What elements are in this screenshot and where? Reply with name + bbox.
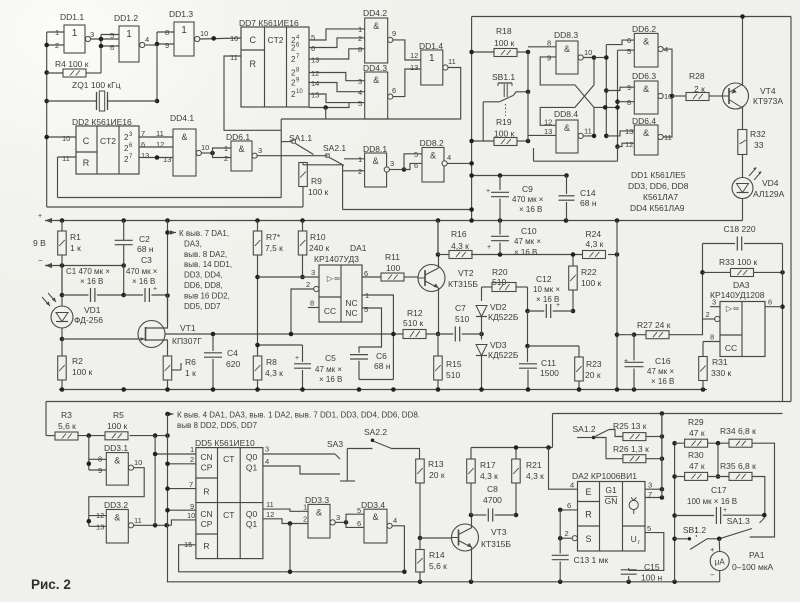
wire DA2 pin2	[560, 537, 572, 539]
svg-text:+: +	[38, 213, 42, 220]
svg-text:R29: R29	[688, 417, 704, 427]
svg-text:1: 1	[181, 25, 187, 36]
lamp symbol in DA2	[629, 500, 638, 509]
svg-text:−: −	[710, 571, 715, 580]
svg-text:9 В: 9 В	[33, 238, 46, 248]
wire section top to DA2 pin4	[552, 414, 554, 448]
svg-text:&: &	[564, 44, 570, 54]
svg-text:DA1: DA1	[350, 243, 367, 253]
wire DD1.1 inputs	[47, 31, 64, 33]
wire DD2 reset	[58, 156, 77, 158]
svg-text:15: 15	[311, 91, 319, 100]
svg-text:R10: R10	[310, 232, 326, 242]
svg-text:× 16 В: × 16 В	[519, 205, 542, 214]
svg-text:20 к: 20 к	[585, 370, 601, 380]
svg-text:10: 10	[62, 134, 70, 143]
svg-text:5: 5	[311, 33, 315, 42]
svg-text:DA3: DA3	[733, 280, 750, 290]
svg-text:11: 11	[134, 516, 142, 525]
svg-text:&: &	[114, 513, 120, 523]
svg-text:2: 2	[303, 515, 307, 524]
resistor R13 20k	[416, 459, 425, 483]
svg-text:SA1.1: SA1.1	[289, 133, 312, 143]
transistor VT2 KT315B	[418, 265, 445, 292]
svg-text:+: +	[556, 302, 560, 309]
svg-text:U: U	[631, 534, 637, 544]
svg-text:R16: R16	[451, 229, 467, 239]
svg-text:11: 11	[230, 53, 238, 62]
wire DD8.1 out to DD8.2 inputs	[389, 169, 404, 171]
svg-text:CC: CC	[324, 306, 336, 316]
wire DD6.3 input 9	[606, 87, 634, 90]
svg-text:R17: R17	[480, 460, 496, 470]
wire DA3 out pin6	[765, 306, 783, 308]
svg-text:VT2: VT2	[458, 268, 474, 278]
svg-text:R3: R3	[61, 410, 72, 420]
resistor R10 240k	[302, 221, 304, 232]
wire DD7 reset node	[309, 103, 349, 108]
svg-text:DD6.2: DD6.2	[632, 24, 656, 34]
wire DA3 pin3 stub	[710, 306, 720, 308]
svg-text:100 к: 100 к	[72, 367, 93, 377]
resistor R32 33	[738, 130, 747, 155]
svg-text:DD3.4: DD3.4	[361, 500, 385, 510]
svg-text:6: 6	[768, 298, 772, 307]
meter PA1	[710, 552, 729, 571]
svg-text:К561ЛА7: К561ЛА7	[643, 192, 678, 202]
wire DD4.2 out to DD1.4	[393, 40, 421, 60]
svg-text:10: 10	[187, 511, 195, 520]
svg-text:5: 5	[647, 524, 651, 533]
svg-text:Рис. 2: Рис. 2	[31, 577, 71, 592]
svg-text:12: 12	[311, 69, 319, 78]
svg-text:SA2.2: SA2.2	[364, 427, 387, 437]
transistor VT1 KP307G (FET)	[138, 321, 165, 348]
capacitor C5 47uF	[302, 345, 304, 362]
wire DD1.3 output to DD7	[200, 38, 241, 39]
svg-text:C8: C8	[487, 484, 498, 494]
svg-text:1500: 1500	[540, 368, 559, 378]
svg-text:C9: C9	[522, 184, 533, 194]
svg-text:&: &	[316, 507, 322, 517]
svg-text:3: 3	[648, 481, 652, 490]
svg-text:68 н: 68 н	[137, 244, 154, 254]
wire latch to DD6 column A	[594, 57, 606, 59]
svg-text:2: 2	[565, 529, 569, 538]
svg-text:&: &	[373, 156, 379, 166]
svg-text:+: +	[486, 188, 490, 195]
svg-text:5,6 к: 5,6 к	[58, 421, 76, 431]
svg-text:10: 10	[584, 48, 592, 57]
svg-text:3: 3	[358, 77, 362, 86]
capacitor C16 47uF	[633, 335, 635, 361]
svg-text:470 мк ×: 470 мк ×	[126, 267, 158, 276]
wire DD5 pin10 from DD3.2	[171, 520, 196, 525]
wire DD2 clock	[47, 136, 76, 138]
transistor VT4 KT973A	[723, 83, 749, 109]
svg-text:4: 4	[570, 481, 574, 490]
svg-text:μА: μА	[715, 558, 726, 567]
svg-text:CN: CN	[200, 452, 212, 462]
svg-text:∞: ∞	[733, 304, 739, 313]
svg-text:510: 510	[455, 314, 469, 324]
svg-text:1: 1	[126, 29, 132, 40]
wire latch to DD6 column B	[594, 106, 618, 108]
svg-text:R8: R8	[266, 357, 277, 367]
svg-text:11: 11	[584, 127, 592, 136]
wire VD1 node down	[61, 339, 63, 356]
svg-text:CT2: CT2	[267, 35, 283, 45]
capacitor C6 68n	[350, 354, 368, 356]
svg-text:68 н: 68 н	[374, 361, 391, 371]
resistor R31 330k	[703, 341, 720, 343]
node osc-left junction	[44, 43, 49, 48]
svg-text:13: 13	[625, 127, 633, 136]
wire VT3 collector	[471, 515, 473, 528]
svg-text:13: 13	[163, 155, 171, 164]
svg-text:13: 13	[311, 56, 319, 65]
svg-text:C14: C14	[580, 188, 596, 198]
svg-text:R6: R6	[185, 357, 196, 367]
wire VT1 drain right long	[165, 333, 403, 335]
svg-text:3: 3	[712, 298, 716, 307]
svg-text:7: 7	[189, 480, 193, 489]
svg-text:R24: R24	[586, 229, 602, 239]
svg-text:R19: R19	[496, 117, 512, 127]
wire DD6.2 input 5	[618, 49, 635, 51]
svg-text:8: 8	[627, 98, 631, 107]
svg-text:&: &	[430, 151, 436, 161]
wire R9 bottom loop	[302, 187, 304, 208]
svg-text:C11: C11	[541, 358, 556, 368]
svg-text:PA1: PA1	[749, 550, 765, 560]
svg-text:C18 220: C18 220	[724, 224, 756, 234]
svg-text:DD1.3: DD1.3	[169, 9, 193, 19]
svg-text:CN: CN	[200, 509, 212, 519]
svg-text:1 к: 1 к	[185, 368, 196, 378]
svg-text:&: &	[643, 128, 649, 138]
svg-text:DD3, DD4,: DD3, DD4,	[184, 271, 223, 280]
wire PA1 bottom	[719, 571, 721, 582]
svg-text:КД522Б: КД522Б	[488, 350, 519, 360]
svg-text:10: 10	[200, 29, 208, 38]
svg-text:&: &	[238, 144, 244, 154]
svg-text:АЛ129А: АЛ129А	[753, 189, 785, 199]
svg-text:4,3 к: 4,3 к	[526, 471, 544, 481]
svg-text:CC: CC	[725, 343, 737, 353]
svg-text:∞: ∞	[334, 274, 340, 283]
capacitor C12 10uF	[527, 287, 529, 311]
wire x560 column	[559, 510, 561, 554]
wire latch cross B	[540, 57, 594, 136]
wire lower latch return y161	[534, 160, 618, 162]
svg-text:&: &	[643, 84, 649, 94]
svg-text:100 к: 100 к	[107, 421, 128, 431]
wire DD1.1 output	[91, 38, 119, 40]
svg-text:5,6 к: 5,6 к	[429, 561, 447, 571]
svg-text:C2: C2	[139, 234, 150, 244]
wire VD1 to VT1 gate	[61, 328, 63, 339]
resistor R7 7.5k	[257, 221, 259, 232]
svg-text:6: 6	[110, 43, 114, 52]
wire DD5 out 11 to DD3.3	[263, 509, 308, 511]
svg-text:выв 16 DD2,: выв 16 DD2,	[184, 291, 230, 300]
svg-text:2: 2	[190, 455, 194, 464]
resistor R23 20k	[578, 346, 580, 357]
svg-text:6: 6	[392, 86, 396, 95]
wire К выв.7 arrow	[169, 232, 177, 234]
svg-text:C5: C5	[325, 353, 336, 363]
svg-text:33: 33	[754, 140, 764, 150]
wire VT4 emitter	[742, 106, 744, 130]
svg-text:К выв. 4 DA1, DA3, выв. 1 DA2,: К выв. 4 DA1, DA3, выв. 1 DA2, выв. 7 DD…	[177, 411, 420, 420]
svg-text:47 мк ×: 47 мк ×	[647, 367, 674, 376]
svg-text:11: 11	[266, 500, 274, 509]
wire DA3 pin2 from R27	[703, 318, 715, 320]
wire DD4.1 out to DD6.1	[201, 152, 212, 154]
svg-text:R13: R13	[428, 459, 444, 469]
svg-text:R: R	[203, 541, 209, 551]
svg-text:DD1.1: DD1.1	[60, 12, 84, 22]
svg-text:VT4: VT4	[760, 86, 776, 96]
svg-text:240 к: 240 к	[309, 243, 330, 253]
svg-text:3: 3	[336, 513, 340, 522]
svg-text:2: 2	[358, 34, 362, 43]
svg-text:3: 3	[265, 445, 269, 454]
svg-text:CT2: CT2	[100, 136, 116, 146]
svg-text:510 к: 510 к	[403, 318, 424, 328]
svg-text:DD3.1: DD3.1	[104, 443, 128, 453]
svg-text:11: 11	[448, 57, 456, 66]
diode VD2 KD522B	[476, 306, 487, 317]
wire x290 down	[289, 524, 291, 572]
svg-text:DD8.2: DD8.2	[420, 138, 444, 148]
wire SA2.1 to R9 node	[303, 164, 343, 166]
svg-text:× 16 В: × 16 В	[319, 375, 342, 384]
svg-text:1: 1	[429, 53, 435, 64]
wire DD1.2 output	[145, 44, 157, 46]
wire VT2 collector	[438, 255, 440, 269]
resistor R9	[299, 163, 308, 187]
wire R34/R35 mid column	[717, 443, 719, 476]
wire left vertical of top-right block	[471, 17, 473, 221]
svg-text:КР1407УД3: КР1407УД3	[314, 254, 359, 264]
wire right border	[790, 17, 792, 402]
svg-text:2: 2	[358, 167, 362, 176]
svg-text:13: 13	[544, 127, 552, 136]
resistor R17 4.3k	[470, 448, 472, 460]
svg-text:6: 6	[141, 140, 145, 149]
svg-text:5: 5	[627, 47, 631, 56]
svg-text:C10: C10	[521, 226, 537, 236]
svg-text:DD3.2: DD3.2	[104, 500, 128, 510]
svg-text:4: 4	[393, 516, 397, 525]
svg-text:14: 14	[311, 79, 319, 88]
svg-text:13: 13	[410, 63, 418, 72]
wire loop DD2 reset net	[58, 197, 282, 199]
svg-text:+: +	[624, 358, 628, 365]
wire VT1 drain up	[146, 296, 168, 329]
svg-text:5: 5	[110, 31, 114, 40]
wire DA2 section top line	[553, 413, 783, 415]
capacitor C10 47uF	[499, 221, 501, 235]
wire loop y207-210 right	[343, 209, 472, 211]
svg-text:E: E	[585, 487, 591, 497]
wire DD4.3 out to DD1.4	[393, 69, 421, 97]
wire C-line to VT1 drain node	[165, 293, 170, 298]
resistor R21 4.3k	[515, 448, 517, 460]
resistor R6 1k	[163, 356, 172, 380]
svg-text:100 к: 100 к	[581, 278, 602, 288]
svg-text:4: 4	[447, 153, 451, 162]
svg-text:7,5 к: 7,5 к	[265, 243, 283, 253]
svg-text:R14: R14	[429, 550, 445, 560]
wire R27 left row	[617, 334, 634, 336]
svg-text:DD3.3: DD3.3	[305, 495, 329, 505]
resistor R8 4.3k	[253, 356, 261, 380]
wire DD6.4 input 13	[606, 131, 634, 136]
svg-text:3: 3	[311, 268, 315, 277]
wire DA3 feedback left column	[702, 244, 704, 320]
wire DA1 out pin6 to R11	[362, 276, 381, 278]
svg-text:+: +	[295, 355, 299, 362]
svg-text:NC: NC	[345, 308, 357, 318]
svg-text:3: 3	[258, 146, 262, 155]
svg-text:4: 4	[358, 88, 362, 97]
wire x167 column upper	[167, 221, 169, 296]
svg-text:DD8.3: DD8.3	[554, 30, 578, 40]
svg-text:R5: R5	[113, 410, 124, 420]
wire C12 node down	[527, 311, 529, 346]
wire DD3.1 out loop to DD3.2	[89, 468, 144, 527]
svg-text:VT3: VT3	[491, 527, 507, 537]
capacitor C4 620	[212, 334, 214, 351]
svg-text:DA2 КР1006ВИ1: DA2 КР1006ВИ1	[572, 471, 637, 481]
svg-text:Q0: Q0	[246, 452, 258, 462]
svg-text:6: 6	[414, 161, 418, 170]
svg-text:Q1: Q1	[246, 463, 258, 473]
capacitor C13 1uF	[552, 554, 569, 556]
wire DA1 pin2 from VT1 line	[291, 289, 314, 334]
svg-text:100 мк × 16 В: 100 мк × 16 В	[687, 497, 737, 506]
svg-text:2: 2	[306, 280, 310, 289]
capacitor C14 68n	[566, 176, 568, 195]
wire R20 left column	[481, 287, 483, 301]
svg-text:КП307Г: КП307Г	[172, 336, 202, 346]
svg-text:DA3,: DA3,	[184, 239, 202, 248]
svg-text:С13 1 мк: С13 1 мк	[574, 555, 609, 565]
capacitor C15 100n	[628, 568, 630, 570]
svg-text:R15: R15	[446, 359, 462, 369]
svg-text:C3: C3	[141, 255, 152, 265]
svg-text:13: 13	[96, 523, 104, 532]
svg-text:DD4.1: DD4.1	[170, 113, 194, 123]
wire top supply	[472, 16, 791, 18]
svg-text:▷: ▷	[327, 274, 334, 283]
resistor R2 100k	[58, 356, 66, 380]
svg-text:C16: C16	[655, 356, 671, 366]
svg-text:8: 8	[710, 333, 714, 342]
svg-text:9: 9	[547, 54, 551, 63]
svg-text:9: 9	[392, 29, 396, 38]
wire R21 bottom to DA2? none - C8 node	[515, 514, 517, 516]
capacitor C9 470uF	[499, 176, 501, 191]
wire left frame drop	[45, 402, 47, 436]
wire -9V rail	[45, 265, 124, 267]
svg-text:9: 9	[98, 466, 102, 475]
svg-text:1: 1	[224, 144, 228, 153]
resistor R15 510	[437, 334, 439, 356]
diode VD3 KD522B	[481, 334, 483, 340]
svg-text:&: &	[564, 123, 570, 133]
wire SA2.2 to R13	[347, 448, 372, 450]
svg-text:SA1.2: SA1.2	[573, 424, 596, 434]
wire PA1 top	[718, 539, 721, 552]
svg-text:10: 10	[134, 458, 142, 467]
svg-text:+: +	[153, 286, 157, 293]
svg-text:R21: R21	[526, 460, 542, 470]
wire y346 row	[528, 345, 580, 347]
wire R32 to VD4	[742, 155, 744, 178]
svg-text:C12: C12	[536, 274, 552, 284]
svg-text:4,3 к: 4,3 к	[451, 241, 469, 251]
svg-text:VD2: VD2	[490, 302, 507, 312]
svg-text:DD1 К561ЛЕ5: DD1 К561ЛЕ5	[631, 170, 686, 180]
svg-text:12: 12	[156, 140, 164, 149]
wire DD8.2 output row	[447, 162, 471, 164]
svg-text:ZQ1 100 кГц: ZQ1 100 кГц	[72, 80, 121, 90]
svg-text:R23: R23	[586, 359, 602, 369]
svg-text:× 16 В: × 16 В	[132, 277, 155, 286]
wire upper row y447.5	[471, 447, 553, 449]
svg-text:8: 8	[358, 45, 362, 54]
svg-text:R: R	[249, 59, 256, 69]
svg-text:620: 620	[226, 359, 240, 369]
svg-text:Q1: Q1	[246, 519, 258, 529]
wire to DD8.1 input 2	[343, 170, 365, 172]
resistor R22 100k	[572, 255, 574, 267]
svg-text:&: &	[181, 132, 187, 142]
svg-text:выв 8 DD2, DD5, DD7: выв 8 DD2, DD5, DD7	[177, 421, 258, 430]
svg-text:R2: R2	[72, 356, 83, 366]
svg-text:12: 12	[266, 510, 274, 519]
svg-text:1: 1	[358, 25, 362, 34]
svg-text:&: &	[373, 75, 379, 85]
wire DD3.2 out	[134, 524, 172, 526]
svg-text:DD4 К561ЛА9: DD4 К561ЛА9	[630, 203, 685, 213]
wire DD5 outputs top to SA3	[263, 453, 335, 455]
svg-text:8: 8	[310, 299, 314, 308]
resistor R14 5.6k	[416, 550, 425, 573]
svg-text:100 к: 100 к	[308, 187, 329, 197]
svg-text:C17: C17	[711, 485, 727, 495]
svg-text:ФД-256: ФД-256	[74, 315, 103, 325]
wire DD8.4 input 13	[528, 134, 556, 136]
svg-text:Q0: Q0	[246, 509, 258, 519]
svg-text:&: &	[643, 36, 649, 46]
wire DD6.4 input 12	[618, 143, 635, 146]
svg-text:R33 100 к: R33 100 к	[719, 257, 757, 267]
svg-text:выв. 14 DD1,: выв. 14 DD1,	[184, 260, 232, 269]
svg-text:20 к: 20 к	[429, 470, 445, 480]
svg-text:R31: R31	[712, 357, 728, 367]
wire R7 column to C5	[258, 344, 303, 346]
svg-text:10 мк ×: 10 мк ×	[533, 285, 560, 294]
svg-text:9: 9	[190, 502, 194, 511]
wire R25/R26 right column	[661, 414, 663, 498]
svg-text:510: 510	[446, 370, 460, 380]
wire to DD8.1 input 1	[344, 158, 365, 160]
